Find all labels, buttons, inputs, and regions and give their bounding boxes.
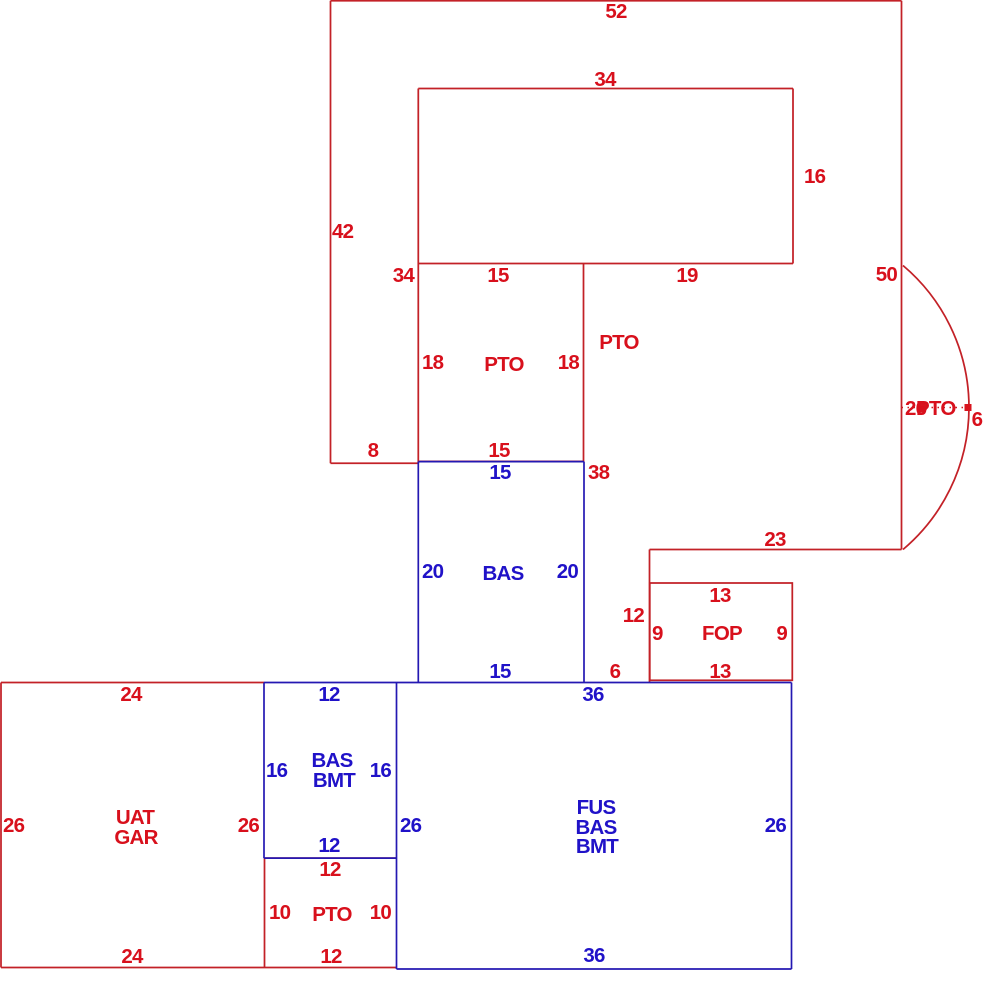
svg-text:PTO: PTO	[312, 903, 352, 926]
svg-text:12: 12	[623, 604, 645, 627]
wire: wall 12 vertical	[649, 550, 651, 683]
svg-text:20: 20	[422, 560, 444, 583]
svg-text:15: 15	[489, 461, 511, 484]
svg-text:34: 34	[393, 264, 416, 287]
svg-text:12: 12	[318, 683, 340, 706]
svg-text:15: 15	[488, 439, 510, 462]
svg-text:26: 26	[400, 814, 422, 837]
svg-text:15: 15	[489, 660, 511, 683]
svg-text:26: 26	[765, 814, 787, 837]
wire: outer left wall (42)	[330, 1, 332, 464]
svg-text:PTO: PTO	[484, 353, 524, 376]
svg-text:10: 10	[370, 901, 392, 924]
svg-text:9: 9	[776, 622, 787, 645]
dotted radius line of arc patio	[902, 407, 964, 409]
wire: upper inner rect top (34)	[418, 88, 793, 90]
UAT GAR garage outline	[1, 682, 264, 684]
arc end square marker	[965, 404, 972, 411]
svg-text:6: 6	[610, 660, 621, 683]
svg-text:GAR: GAR	[114, 826, 158, 849]
svg-text:12: 12	[319, 858, 341, 881]
svg-text:BMT: BMT	[313, 769, 356, 792]
FOP porch rectangle	[650, 583, 793, 680]
PTO bottom patio left wall	[264, 858, 266, 968]
svg-text:13: 13	[709, 660, 731, 683]
svg-text:9: 9	[652, 622, 663, 645]
wire: PTO upper right vertical (18/38)	[583, 264, 585, 463]
svg-text:8: 8	[368, 439, 379, 462]
svg-text:26: 26	[238, 814, 260, 837]
svg-text:16: 16	[370, 759, 392, 782]
svg-text:26: 26	[3, 814, 25, 837]
FUS BAS BMT rectangle	[396, 683, 398, 970]
svg-text:50: 50	[876, 263, 898, 286]
svg-text:6: 6	[972, 408, 983, 431]
svg-text:16: 16	[266, 759, 288, 782]
svg-text:BMT: BMT	[576, 835, 619, 858]
svg-text:38: 38	[588, 461, 610, 484]
svg-text:24: 24	[121, 945, 144, 968]
svg-text:20: 20	[557, 560, 579, 583]
svg-text:PTO: PTO	[916, 397, 956, 420]
svg-text:10: 10	[269, 901, 291, 924]
wire: PTO upper bottom (15)	[418, 460, 583, 462]
svg-text:PTO: PTO	[599, 331, 639, 354]
wire: bottom-left short wall (8)	[331, 462, 419, 464]
wire: wall 23	[650, 549, 902, 551]
svg-text:24: 24	[120, 683, 143, 706]
BAS BMT rectangle	[263, 683, 265, 859]
PTO bottom patio top wall (under blue)	[265, 857, 397, 859]
svg-text:BAS: BAS	[482, 562, 523, 585]
arc patio PTO curved wall	[903, 266, 969, 550]
wire: outer top wall (52)	[331, 0, 902, 2]
BAS middle rectangle	[418, 461, 584, 463]
wire: long blue top wall of bottom section	[264, 682, 792, 684]
arc center dot marker	[917, 402, 927, 412]
wire: outer right wall (50)	[901, 1, 903, 550]
wire: PTO upper-left vertical (18/34)	[417, 89, 419, 464]
svg-text:12: 12	[318, 834, 340, 857]
wire: upper inner rect bottom (15+19)	[418, 263, 793, 265]
svg-text:18: 18	[422, 351, 444, 374]
wire: upper inner rect right (16)	[792, 89, 794, 264]
svg-text:36: 36	[582, 683, 604, 706]
svg-text:52: 52	[605, 0, 627, 23]
svg-text:23: 23	[764, 528, 786, 551]
svg-text:42: 42	[332, 220, 354, 243]
svg-text:13: 13	[709, 584, 731, 607]
svg-text:FOP: FOP	[702, 622, 742, 645]
svg-text:16: 16	[804, 165, 826, 188]
svg-text:34: 34	[594, 68, 617, 91]
svg-text:12: 12	[320, 945, 342, 968]
svg-text:15: 15	[487, 264, 509, 287]
svg-text:19: 19	[676, 264, 698, 287]
svg-text:18: 18	[558, 351, 580, 374]
svg-text:36: 36	[583, 944, 605, 967]
